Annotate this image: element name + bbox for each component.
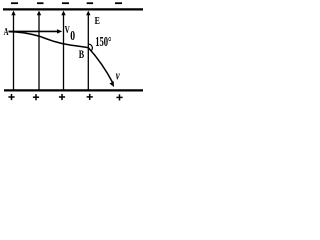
svg-text:150°: 150° (95, 35, 112, 49)
minus sign 5 (115, 2, 122, 4)
svg-text:v: v (116, 70, 120, 83)
trajectory B to bottom (v) (88, 48, 112, 83)
svg-text:B: B (79, 49, 85, 62)
v0 arrow (9, 29, 63, 33)
trajectory A to B (9, 32, 89, 48)
svg-text:E: E (95, 15, 100, 28)
plus sign 5 (116, 94, 122, 100)
field line 3 (61, 11, 65, 90)
top plate (negative) (3, 8, 143, 10)
minus sign 4 (87, 2, 93, 4)
v arrowhead (110, 81, 115, 87)
field line 1 (11, 11, 15, 90)
field line 4 (E) (86, 11, 90, 90)
svg-text:A: A (4, 25, 10, 37)
plus sign 3 (59, 94, 65, 100)
label v0 (65, 24, 76, 44)
bottom plate (positive) (4, 89, 143, 91)
plus sign 2 (33, 94, 39, 100)
angle arc 150 (88, 44, 92, 50)
minus sign 3 (62, 2, 69, 4)
svg-text:0: 0 (70, 29, 75, 44)
plus sign 4 (87, 94, 93, 100)
plus sign 1 (8, 94, 14, 100)
field line 2 (37, 11, 41, 90)
minus sign 1 (11, 2, 18, 4)
minus sign 2 (37, 2, 44, 4)
